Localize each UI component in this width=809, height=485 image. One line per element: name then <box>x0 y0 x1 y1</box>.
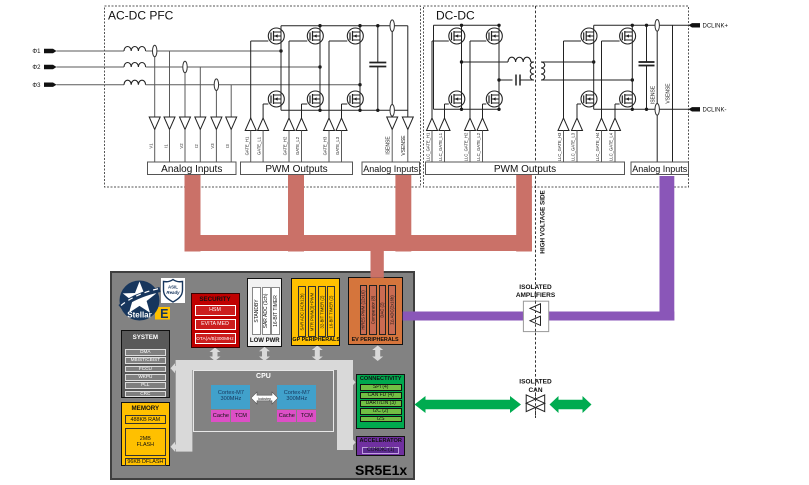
svg-text:LLC_GATE_H3: LLC_GATE_H3 <box>557 132 562 161</box>
svg-text:LLC_GATE_L3: LLC_GATE_L3 <box>571 132 576 161</box>
svg-text:VSENSE: VSENSE <box>666 83 672 104</box>
svg-text:GATE_L3: GATE_L3 <box>335 136 340 155</box>
svg-text:LLC_GATE_L2: LLC_GATE_L2 <box>476 132 481 161</box>
svg-text:CAN: CAN <box>528 387 542 394</box>
svg-text:I1: I1 <box>163 144 168 148</box>
svg-text:GATE_H1: GATE_H1 <box>244 136 249 155</box>
svg-text:Analog Inputs: Analog Inputs <box>632 164 688 174</box>
svg-text:Analog Inputs: Analog Inputs <box>363 164 419 174</box>
svg-text:DCLINK-: DCLINK- <box>703 108 727 114</box>
svg-text:V2: V2 <box>179 143 184 149</box>
svg-text:GATE_L2: GATE_L2 <box>295 136 300 155</box>
svg-text:PWM Outputs: PWM Outputs <box>265 164 327 175</box>
svg-text:ISENSE: ISENSE <box>650 85 656 104</box>
svg-text:I3: I3 <box>225 144 230 148</box>
svg-text:ISOLATED: ISOLATED <box>519 284 552 291</box>
svg-text:ISENSE: ISENSE <box>386 136 392 155</box>
svg-text:LLC_GATE_H4: LLC_GATE_H4 <box>595 132 600 161</box>
svg-text:GATE_H2: GATE_H2 <box>283 136 288 155</box>
svg-text:HIGH VOLTAGE SIDE: HIGH VOLTAGE SIDE <box>540 190 547 253</box>
svg-text:AMPLIFIERS: AMPLIFIERS <box>516 292 556 299</box>
svg-text:V1: V1 <box>149 143 154 149</box>
svg-text:LLC_GATE_L4: LLC_GATE_L4 <box>609 132 614 161</box>
svg-text:I2: I2 <box>194 144 199 148</box>
svg-text:ISOLATED: ISOLATED <box>519 379 552 386</box>
svg-text:LLC_GATE_H2: LLC_GATE_H2 <box>464 132 469 161</box>
svg-text:VSENSE: VSENSE <box>401 135 407 156</box>
svg-text:PWM Outputs: PWM Outputs <box>494 164 556 175</box>
svg-text:Analog Inputs: Analog Inputs <box>161 164 222 175</box>
svg-text:DC-DC: DC-DC <box>436 9 475 23</box>
svg-text:DCLINK+: DCLINK+ <box>703 24 729 30</box>
svg-text:GATE_L1: GATE_L1 <box>257 136 262 155</box>
svg-text:GATE_H3: GATE_H3 <box>323 136 328 155</box>
svg-text:Φ2: Φ2 <box>32 65 41 71</box>
svg-text:Φ1: Φ1 <box>32 49 41 55</box>
svg-text:LLC_GATE_H1: LLC_GATE_H1 <box>426 132 431 161</box>
svg-text:V3: V3 <box>210 143 215 149</box>
svg-text:LLC_GATE_L1: LLC_GATE_L1 <box>438 132 443 161</box>
svg-text:Φ3: Φ3 <box>32 83 41 89</box>
svg-text:AC-DC PFC: AC-DC PFC <box>108 9 174 23</box>
